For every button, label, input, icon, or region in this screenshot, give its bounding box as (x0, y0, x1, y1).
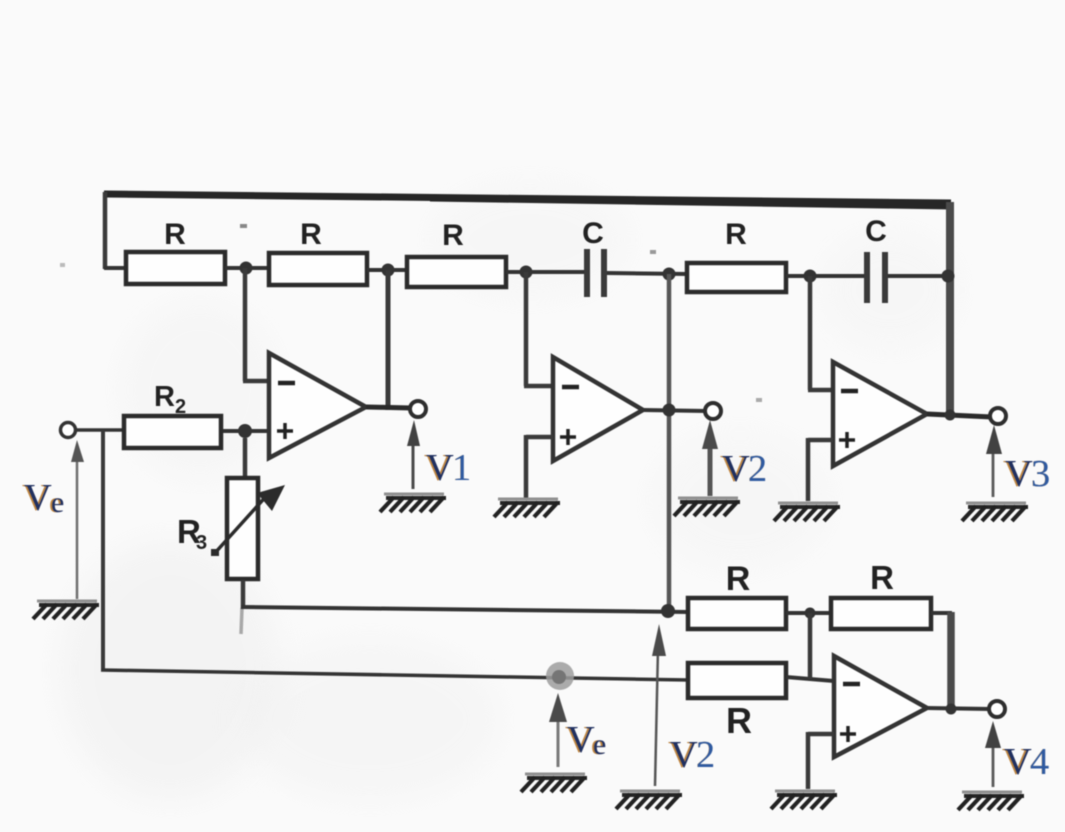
svg-text:2: 2 (175, 396, 186, 418)
svg-text:R: R (300, 218, 322, 251)
svg-text:V: V (1005, 453, 1033, 495)
svg-text:e: e (51, 486, 64, 519)
svg-text:C: C (865, 215, 887, 248)
svg-text:R: R (726, 560, 751, 598)
svg-text:V: V (722, 448, 750, 490)
svg-text:e: e (593, 728, 606, 761)
svg-text:C: C (582, 217, 604, 250)
svg-text:R: R (154, 381, 175, 413)
svg-text:1: 1 (452, 447, 471, 489)
svg-text:V: V (426, 447, 454, 489)
svg-text:3: 3 (1031, 453, 1050, 495)
svg-text:R: R (164, 218, 186, 251)
svg-text:R: R (870, 559, 894, 596)
svg-text:V: V (1004, 741, 1032, 783)
svg-text:R: R (725, 218, 747, 251)
svg-text:2: 2 (696, 734, 715, 776)
svg-text:V: V (670, 734, 698, 776)
svg-text:V: V (24, 477, 52, 519)
svg-text:4: 4 (1030, 741, 1049, 783)
svg-text:R: R (726, 700, 752, 741)
svg-text:2: 2 (748, 448, 767, 490)
svg-text:R: R (442, 219, 464, 252)
svg-text:3: 3 (196, 532, 207, 554)
